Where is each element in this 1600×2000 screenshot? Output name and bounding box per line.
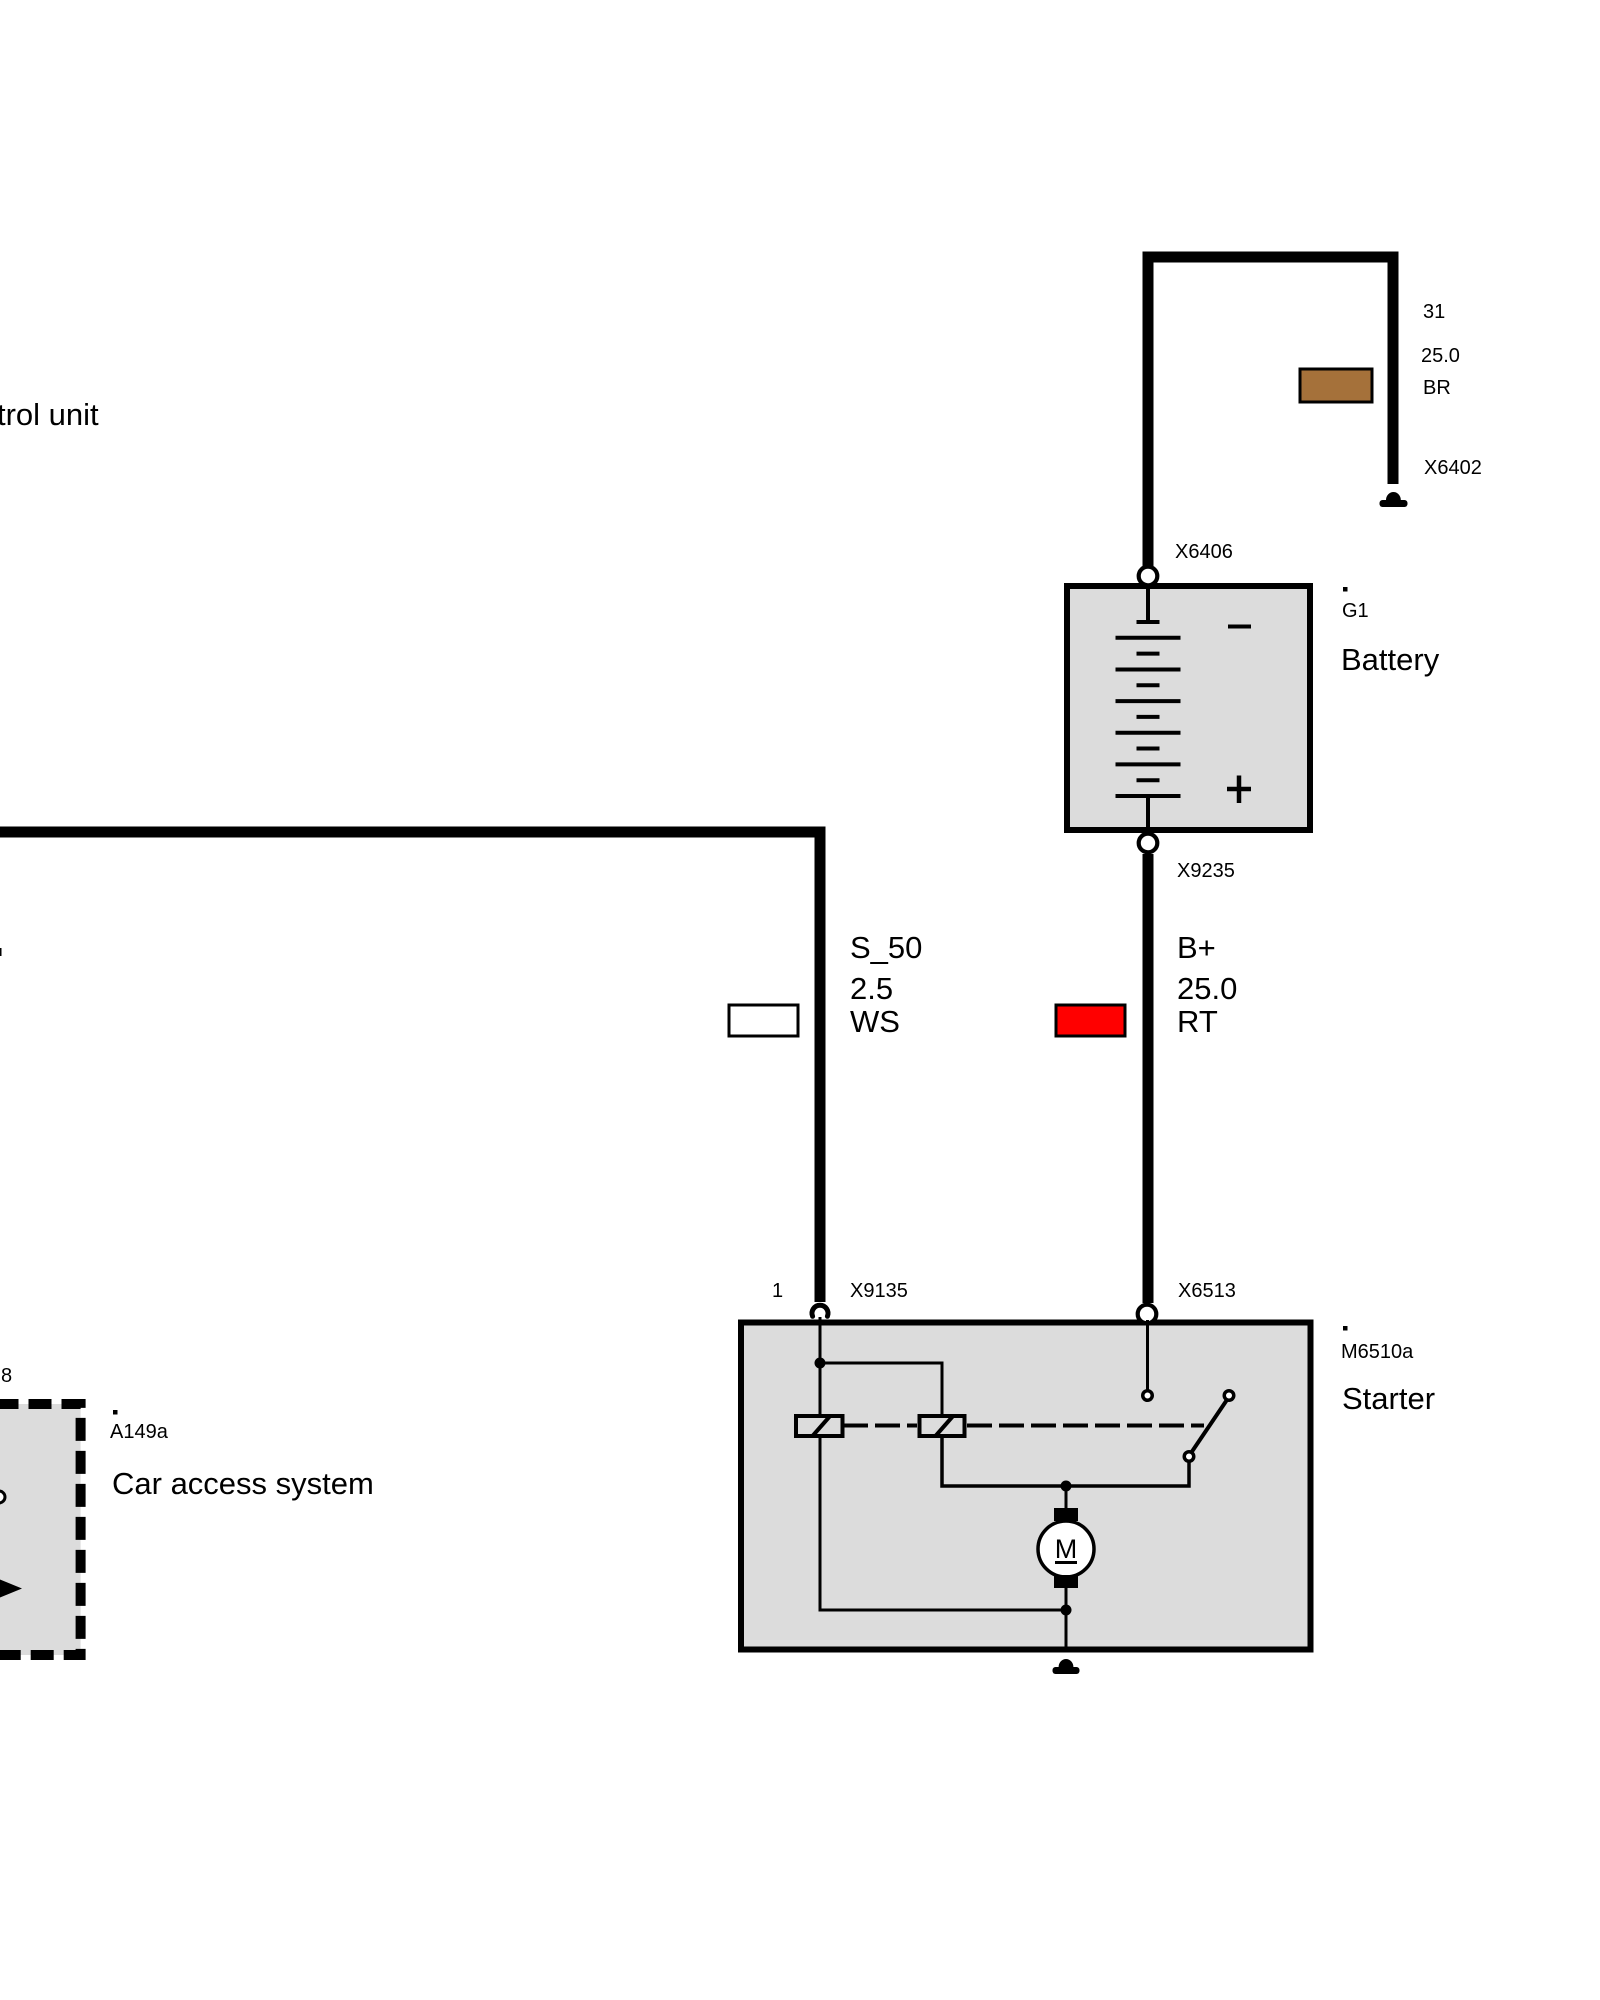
svg-text:M6510a: M6510a bbox=[1341, 1341, 1414, 1363]
connector circle X6406 bbox=[1139, 567, 1158, 586]
starter M6510a box bbox=[741, 1323, 1311, 1650]
relay coil K2 bbox=[920, 1416, 965, 1437]
junction dot bbox=[815, 1358, 826, 1369]
svg-text:31: 31 bbox=[1423, 301, 1445, 323]
motor M bbox=[1038, 1521, 1094, 1577]
battery plus sign bbox=[1227, 776, 1251, 804]
pin 1 socket arc X9135 bbox=[812, 1305, 828, 1316]
svg-text:2.5: 2.5 bbox=[850, 971, 893, 1006]
wire pin1 down bbox=[819, 1317, 822, 1363]
car access dot bbox=[113, 1410, 118, 1415]
svg-text:1: 1 bbox=[772, 1280, 783, 1302]
wire B+ battery to starter bbox=[1143, 854, 1154, 1303]
clipped glyph fragment at left edge bbox=[0, 948, 2, 956]
svg-text:25.0: 25.0 bbox=[1421, 345, 1460, 367]
motor terminal bottom bbox=[1054, 1575, 1078, 1588]
arrow triangle bbox=[0, 1580, 22, 1598]
junction dot motor bottom bbox=[1061, 1605, 1072, 1616]
svg-text:X9235: X9235 bbox=[1177, 860, 1235, 882]
wire color box WS white bbox=[729, 1005, 798, 1036]
svg-text:X6513: X6513 bbox=[1178, 1280, 1236, 1302]
wire color box RT red bbox=[1056, 1005, 1125, 1036]
svg-text:Car access system: Car access system bbox=[112, 1466, 374, 1501]
dashed mechanical link K2-switch bbox=[967, 1424, 1204, 1428]
svg-text:X6402: X6402 bbox=[1424, 457, 1482, 479]
svg-text:Battery: Battery bbox=[1341, 642, 1440, 677]
svg-text:RT: RT bbox=[1177, 1004, 1218, 1039]
battery G1 box bbox=[1067, 586, 1310, 830]
wire switch contact bbox=[1146, 1320, 1149, 1390]
wire to coil K2 bbox=[820, 1363, 942, 1416]
svg-text:B+: B+ bbox=[1177, 930, 1216, 965]
dashed mechanical link K1-K2 bbox=[843, 1424, 917, 1428]
svg-text:25.0: 25.0 bbox=[1177, 971, 1237, 1006]
svg-text:X6406: X6406 bbox=[1175, 541, 1233, 563]
svg-text:8: 8 bbox=[1, 1365, 12, 1387]
svg-text:M: M bbox=[1055, 1534, 1078, 1564]
connector circle on box edge bbox=[0, 1491, 5, 1503]
svg-text:G1: G1 bbox=[1342, 600, 1369, 622]
svg-text:trol unit: trol unit bbox=[0, 397, 99, 432]
starter dot bbox=[1343, 1326, 1348, 1331]
svg-text:Starter: Starter bbox=[1342, 1381, 1435, 1416]
car access system A149a dashed box bbox=[0, 1404, 81, 1655]
wire coil K1 to motor bottom bbox=[820, 1436, 1066, 1610]
svg-text:S_50: S_50 bbox=[850, 930, 922, 965]
wire color box BR brown bbox=[1300, 369, 1372, 402]
wire coil K2 to switch arm bbox=[942, 1436, 1189, 1486]
relay coil K1 bbox=[796, 1416, 843, 1437]
connector circle X6513 bbox=[1138, 1305, 1157, 1324]
battery cell plates bbox=[1116, 589, 1181, 830]
wire S_50 from control unit to starter pin 1 bbox=[0, 832, 820, 1302]
switch pivot circle bbox=[1224, 1391, 1234, 1401]
wire motor to ground bbox=[1065, 1588, 1068, 1652]
switch lever bottom circle bbox=[1184, 1452, 1194, 1462]
ground X6402 bbox=[1380, 492, 1408, 507]
ground starter bbox=[1053, 1659, 1080, 1674]
svg-text:X9135: X9135 bbox=[850, 1280, 908, 1302]
motor terminal top bbox=[1054, 1508, 1078, 1521]
connector circle X9235 bbox=[1139, 834, 1158, 853]
switch fixed contact circle bbox=[1143, 1391, 1153, 1401]
battery minus sign bbox=[1228, 625, 1251, 629]
wire motor top terminal bbox=[1065, 1486, 1068, 1510]
battery dot bbox=[1343, 587, 1348, 592]
svg-text:BR: BR bbox=[1423, 377, 1451, 399]
svg-text:A149a: A149a bbox=[110, 1421, 169, 1443]
junction dot motor top bbox=[1061, 1481, 1072, 1492]
wire to coil K1 bbox=[819, 1363, 822, 1416]
wire ground net 31 from battery top to X6402 bbox=[1148, 257, 1393, 566]
svg-text:WS: WS bbox=[850, 1004, 900, 1039]
switch lever arm bbox=[1192, 1401, 1227, 1452]
